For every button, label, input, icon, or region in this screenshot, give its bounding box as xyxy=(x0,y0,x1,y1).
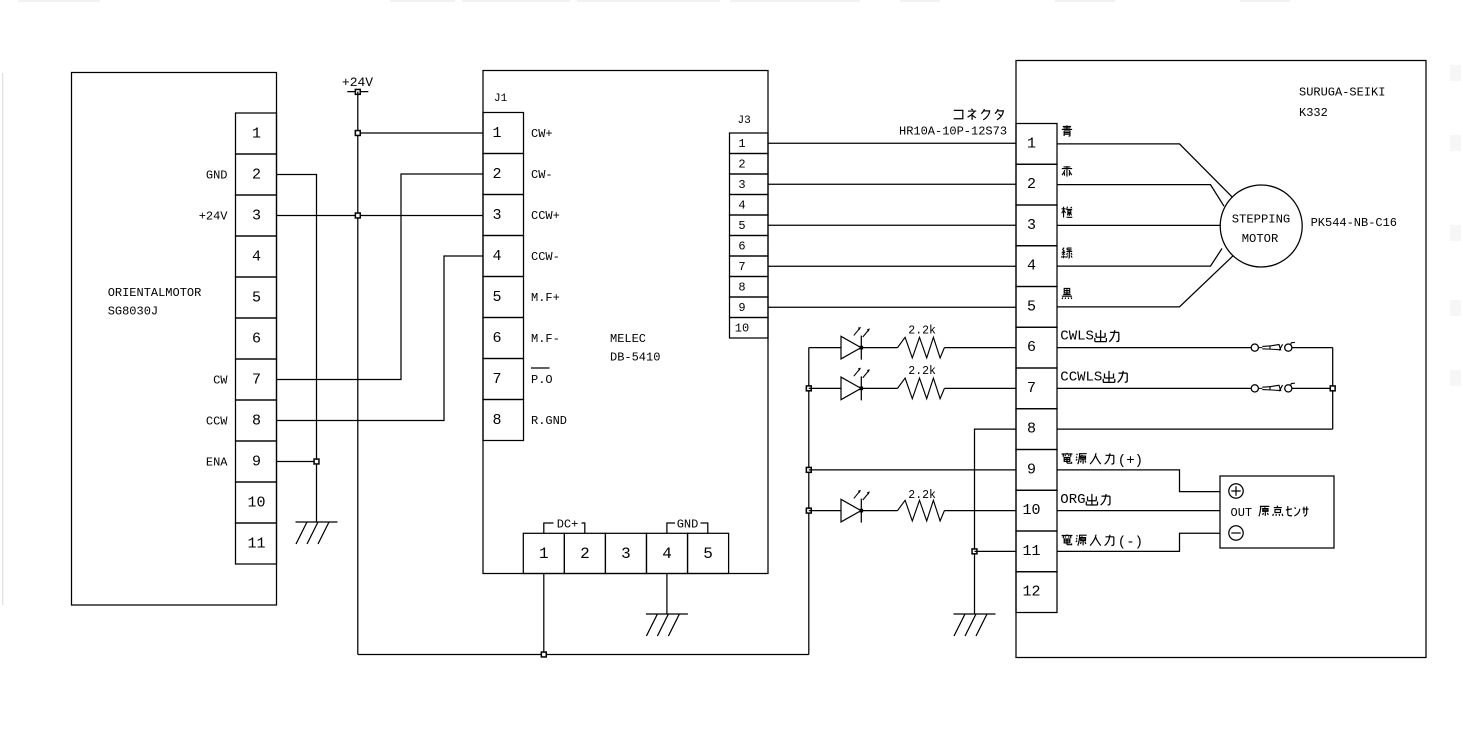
svg-text:4: 4 xyxy=(662,545,672,563)
wire HR10A pin 8 to ground rail xyxy=(975,429,1017,614)
svg-text:6: 6 xyxy=(738,239,745,253)
svg-text:9: 9 xyxy=(252,454,261,471)
limit switch SW2 (CCWLS) xyxy=(1251,383,1295,392)
pin 7 (SG8030J connector) xyxy=(236,359,277,400)
pin 2 (SG8030J connector) xyxy=(236,154,277,195)
svg-text:3: 3 xyxy=(621,545,631,563)
wire +24V branch to J1 pin 1 (CW+) xyxy=(358,132,483,134)
controller box ORIENTALMOTOR SG8030J outline xyxy=(72,73,277,606)
junction +24V rail / pin3 wire xyxy=(355,213,360,218)
svg-text:3: 3 xyxy=(492,207,501,224)
svg-text:DB-5410: DB-5410 xyxy=(610,351,660,365)
wire resistor R1 to HR10A pin 6 xyxy=(944,347,1016,349)
svg-text:5: 5 xyxy=(492,289,501,306)
svg-text:3: 3 xyxy=(252,208,261,225)
sensor terminal + (plus) xyxy=(1229,484,1243,498)
wire resistor R2 to HR10A pin 7 xyxy=(944,387,1016,389)
svg-text:7: 7 xyxy=(252,372,261,389)
connector label コネクタ HR10A-10P-12S73 xyxy=(899,109,1007,139)
svg-text:CW: CW xyxy=(213,374,228,388)
sensor terminal - (minus) xyxy=(1229,526,1243,540)
pin 8 (HR10A connector) xyxy=(1016,409,1057,450)
svg-text:5: 5 xyxy=(252,290,261,307)
pin label P.O (J1 pin 7) xyxy=(531,368,553,387)
svg-text:GND: GND xyxy=(677,518,699,532)
wire motor lead 緑 (green) pin 4 to motor xyxy=(1057,249,1222,267)
wire LED D2 to resistor R2 xyxy=(861,387,897,389)
wire LED D1 to resistor R1 xyxy=(861,347,897,349)
pin 8 (J1) xyxy=(483,400,524,441)
wire motor lead 青 (blue) pin 1 to motor xyxy=(1057,144,1233,198)
svg-text:1: 1 xyxy=(1027,135,1036,152)
svg-text:4: 4 xyxy=(738,198,745,212)
wire DC+ pin 1 drop to bus xyxy=(543,574,545,655)
pin 6 (HR10A connector) xyxy=(1016,327,1057,368)
svg-text:9: 9 xyxy=(738,301,745,315)
label OUT 原点センサ xyxy=(1231,506,1309,520)
pin 10 (J3) xyxy=(730,318,769,339)
svg-text:2: 2 xyxy=(492,166,501,183)
svg-text:SURUGA-SEIKI: SURUGA-SEIKI xyxy=(1299,86,1385,100)
wire anode bus to HR10A pin 9 (power +) xyxy=(809,469,1016,471)
resistor R2 2.2k xyxy=(898,378,945,399)
LED D3 xyxy=(841,490,870,523)
wire LED D3 to resistor R3 xyxy=(861,510,897,512)
pin label CCWLS出力 (pin 7) xyxy=(1060,369,1127,385)
pin 4 (SG8030J connector) xyxy=(236,236,277,277)
svg-text:5: 5 xyxy=(1027,298,1036,315)
svg-text:1: 1 xyxy=(738,137,745,151)
pin 1 (DB-5410 power connector) xyxy=(523,533,564,573)
pin label 電源入力(-) (pin 11) xyxy=(1062,534,1143,550)
wire return bus to HR10A pin 8 xyxy=(1057,428,1333,430)
svg-text:DC+: DC+ xyxy=(557,518,579,532)
pin 1 (J3) xyxy=(730,133,769,154)
svg-text:11: 11 xyxy=(1022,543,1040,560)
pin 5 (SG8030J connector) xyxy=(236,277,277,318)
svg-text:PK544-NB-C16: PK544-NB-C16 xyxy=(1311,216,1397,230)
svg-text:1: 1 xyxy=(492,125,501,142)
label MELEC DB-5410 xyxy=(610,332,660,365)
svg-text:J3: J3 xyxy=(738,115,751,127)
svg-text:6: 6 xyxy=(492,330,501,347)
svg-text:HR10A-10P-12S73: HR10A-10P-12S73 xyxy=(899,125,1007,139)
svg-text:ORIENTALMOTOR: ORIENTALMOTOR xyxy=(108,286,202,300)
pin 3 (J1) xyxy=(483,195,524,236)
wire color label 青 (pin 1) xyxy=(1062,125,1072,136)
svg-text:1: 1 xyxy=(539,545,549,563)
limit switch SW1 (CWLS) xyxy=(1251,342,1295,351)
svg-text:M.F-: M.F- xyxy=(531,332,560,346)
svg-text:STEPPING: STEPPING xyxy=(1232,213,1291,227)
pin 4 (DB-5410 power connector) xyxy=(646,533,687,573)
pin 3 (J3) xyxy=(730,174,769,195)
motor M1 STEPPING MOTOR circle xyxy=(1220,185,1302,267)
pin 5 (J3) xyxy=(730,215,769,236)
wire J3 pin 3 to HR10A pin 2 xyxy=(768,183,1016,185)
pin 1 (HR10A connector) xyxy=(1016,124,1057,165)
junction anode bus / LED row pin 10 xyxy=(806,508,811,513)
svg-text:4: 4 xyxy=(492,248,501,265)
svg-text:10: 10 xyxy=(247,495,265,512)
pin 4 (HR10A connector) xyxy=(1016,246,1057,287)
wire motor lead 黒 (black) pin 5 to motor xyxy=(1057,256,1233,307)
svg-text:4: 4 xyxy=(252,249,261,266)
svg-text:8: 8 xyxy=(492,412,501,429)
pin 9 (SG8030J connector) xyxy=(236,441,277,482)
junction ground rail / pin 11 branch xyxy=(972,549,977,554)
label ORIENTALMOTOR SG8030J xyxy=(108,286,202,319)
pin 3 (SG8030J connector) xyxy=(236,195,277,236)
svg-text:2: 2 xyxy=(1027,176,1036,193)
junction anode bus / power(+) row pin 9 xyxy=(806,467,811,472)
svg-text:11: 11 xyxy=(247,536,265,553)
resistor R3 2.2k xyxy=(898,500,945,521)
wire SW2 to switch return bus xyxy=(1292,387,1333,389)
svg-text:OUT: OUT xyxy=(1231,506,1253,520)
wire CW: SG8030J pin 7 to J1 pin 2 (CW-) xyxy=(277,174,484,380)
svg-text:J1: J1 xyxy=(494,93,508,105)
svg-text:7: 7 xyxy=(1027,380,1036,397)
junction GND/ENA node xyxy=(314,459,319,464)
svg-text:CCWLS: CCWLS xyxy=(1060,369,1102,385)
wire motor lead 橙 (orange) pin 3 to motor xyxy=(1057,224,1220,226)
wire resistor R3 to HR10A pin 10 xyxy=(944,510,1016,512)
pin 1 (J1) xyxy=(483,113,524,154)
wire ENA: SG8030J pin 9 to ground rail xyxy=(277,461,317,463)
label STEPPING MOTOR xyxy=(1232,213,1291,246)
wire motor lead 赤 (red) pin 2 to motor xyxy=(1057,185,1224,207)
svg-text:3: 3 xyxy=(738,178,745,192)
svg-text:7: 7 xyxy=(492,371,501,388)
svg-text:1: 1 xyxy=(252,126,261,143)
wire J3 pin 9 to HR10A pin 5 xyxy=(768,306,1016,308)
wire switch return bus vertical xyxy=(1332,348,1334,430)
wire GND pin 4 drop to ground xyxy=(666,574,668,615)
wire HR10A pin 7 to limit switch SW2 xyxy=(1057,387,1251,389)
pin label CWLS出力 (pin 6) xyxy=(1060,329,1119,345)
svg-text:12: 12 xyxy=(1022,584,1040,601)
pin 2 (DB-5410 power connector) xyxy=(564,533,605,573)
wire bottom +24V bus xyxy=(358,654,809,656)
svg-text:6: 6 xyxy=(252,331,261,348)
junction anode bus / LED row pin 7 xyxy=(806,386,811,391)
pin 8 (SG8030J connector) xyxy=(236,400,277,441)
wire +24V: SG8030J pin 3 to J1 pin 3 (CCW+) xyxy=(277,215,484,217)
pin 9 (HR10A connector) xyxy=(1016,450,1057,491)
junction +24V rail / CW+ branch xyxy=(355,131,360,136)
svg-text:2.2k: 2.2k xyxy=(908,324,936,337)
pin 2 (J1) xyxy=(483,154,524,195)
pin 7 (J3) xyxy=(730,256,769,277)
wire anode bus to LED D2 xyxy=(809,387,841,389)
wire HR10A pin 6 to limit switch SW1 xyxy=(1057,347,1251,349)
pin 4 (J1) xyxy=(483,236,524,277)
svg-text:CWLS: CWLS xyxy=(1060,329,1094,345)
svg-text:CW-: CW- xyxy=(531,168,553,182)
svg-text:ORG: ORG xyxy=(1060,492,1085,508)
svg-text:4: 4 xyxy=(1027,258,1036,275)
wire ground rail to HR10A pin 11 (power -) xyxy=(975,550,1017,552)
pin 10 (SG8030J connector) xyxy=(236,482,277,523)
svg-text:CW+: CW+ xyxy=(531,127,553,141)
wire HR10A pin 9 to sensor + terminal xyxy=(1057,470,1220,492)
svg-text:(-): (-) xyxy=(1118,535,1143,551)
pin 2 (HR10A connector) xyxy=(1016,164,1057,205)
pin 1 (SG8030J connector) xyxy=(236,113,277,154)
wire CCW: SG8030J pin 8 to J1 pin 4 (CCW-) xyxy=(277,256,484,421)
pin 9 (J3) xyxy=(730,297,769,318)
label SURUGA-SEIKI K332 xyxy=(1299,86,1385,121)
wire +24V rail vertical xyxy=(357,92,359,655)
svg-text:10: 10 xyxy=(1022,502,1040,519)
wire SW1 to switch return bus xyxy=(1292,347,1333,349)
svg-text:+24V: +24V xyxy=(342,75,373,90)
junction DC+ / bus xyxy=(541,652,546,657)
svg-text:R.GND: R.GND xyxy=(531,414,567,428)
wire J3 pin 5 to HR10A pin 3 xyxy=(768,224,1016,226)
pin 6 (J1) xyxy=(483,318,524,359)
svg-text:9: 9 xyxy=(1027,461,1036,478)
svg-text:MELEC: MELEC xyxy=(610,332,646,346)
pin 10 (HR10A connector) xyxy=(1016,490,1057,531)
wire HR10A pin 11 to sensor - terminal xyxy=(1057,533,1220,551)
svg-text:CCW+: CCW+ xyxy=(531,209,560,223)
svg-text:2.2k: 2.2k xyxy=(908,489,936,502)
pin 4 (J3) xyxy=(730,195,769,216)
svg-text:6: 6 xyxy=(1027,339,1036,356)
junction return bus / SW2 row xyxy=(1330,386,1335,391)
LED D2 xyxy=(841,368,870,401)
svg-text:P.O: P.O xyxy=(531,373,553,387)
resistor R1 2.2k xyxy=(898,337,945,358)
svg-text:3: 3 xyxy=(1027,217,1036,234)
svg-text:ENA: ENA xyxy=(206,456,228,470)
stage box SURUGA-SEIKI K332 outline xyxy=(1016,61,1426,658)
svg-text:+24V: +24V xyxy=(199,210,229,224)
pin 5 (J1) xyxy=(483,277,524,318)
pin 6 (J3) xyxy=(730,236,769,257)
pin 3 (DB-5410 power connector) xyxy=(605,533,646,573)
pin 6 (SG8030J connector) xyxy=(236,318,277,359)
svg-text:CCW: CCW xyxy=(206,415,228,429)
svg-text:2: 2 xyxy=(252,167,261,184)
wire HR10A pin 10 (ORG) to sensor xyxy=(1057,510,1220,512)
wire J3 pin 1 to HR10A pin 1 xyxy=(768,142,1016,144)
svg-text:5: 5 xyxy=(738,219,745,233)
pin label ORG出力 (pin 10) xyxy=(1060,492,1110,508)
ground symbol (controller) xyxy=(296,522,338,544)
svg-text:2: 2 xyxy=(580,545,590,563)
svg-text:SG8030J: SG8030J xyxy=(108,305,158,319)
wire anode bus to LED D3 xyxy=(809,510,841,512)
svg-text:2.2k: 2.2k xyxy=(908,365,936,378)
LED D1 xyxy=(841,327,870,360)
pin 5 (DB-5410 power connector) xyxy=(688,533,729,573)
wire color label 橙 (pin 3) xyxy=(1062,207,1073,218)
pin label 電源入力(+) (pin 9) xyxy=(1062,453,1143,469)
svg-text:MOTOR: MOTOR xyxy=(1242,232,1279,246)
pin 3 (HR10A connector) xyxy=(1016,205,1057,246)
bracket label DC+ (power pins 1-2) xyxy=(544,518,585,534)
pin 12 (HR10A connector) xyxy=(1016,572,1057,613)
bracket label GND (power pins 4-5) xyxy=(667,518,708,534)
origin sensor box OUT 原点センサ xyxy=(1220,476,1334,548)
wire anode bus to LED D1 xyxy=(809,347,841,349)
wire J3 pin 7 to HR10A pin 4 xyxy=(768,265,1016,267)
svg-text:GND: GND xyxy=(206,169,228,183)
ground symbol (stage) xyxy=(954,614,996,636)
pin 2 (J3) xyxy=(730,154,769,175)
driver box MELEC DB-5410 outline xyxy=(483,71,768,574)
wire GND: SG8030J pin 2 to ground rail xyxy=(277,175,317,523)
pin 5 (HR10A connector) xyxy=(1016,287,1057,328)
svg-text:2: 2 xyxy=(738,157,745,171)
svg-text:CCW-: CCW- xyxy=(531,250,560,264)
wire color label 緑 (pin 4) xyxy=(1062,248,1073,259)
svg-text:8: 8 xyxy=(738,280,745,294)
svg-text:5: 5 xyxy=(703,545,713,563)
svg-text:10: 10 xyxy=(735,321,749,335)
svg-text:(+): (+) xyxy=(1118,453,1143,469)
svg-text:K332: K332 xyxy=(1299,106,1328,120)
svg-text:7: 7 xyxy=(738,260,745,274)
svg-text:8: 8 xyxy=(1027,421,1036,438)
pin 11 (SG8030J connector) xyxy=(236,523,277,564)
ground symbol (driver power) xyxy=(646,614,688,636)
svg-text:8: 8 xyxy=(252,413,261,430)
wire color label 黒 (pin 5) xyxy=(1062,288,1072,299)
pin 7 (HR10A connector) xyxy=(1016,368,1057,409)
power symbol +24V xyxy=(342,75,373,94)
pin 8 (J3) xyxy=(730,277,769,298)
pin 11 (HR10A connector) xyxy=(1016,531,1057,572)
wire color label 赤 (pin 2) xyxy=(1062,166,1072,176)
svg-text:M.F+: M.F+ xyxy=(531,291,560,305)
wire LED anode bus vertical xyxy=(808,348,810,655)
pin 7 (J1) xyxy=(483,359,524,400)
